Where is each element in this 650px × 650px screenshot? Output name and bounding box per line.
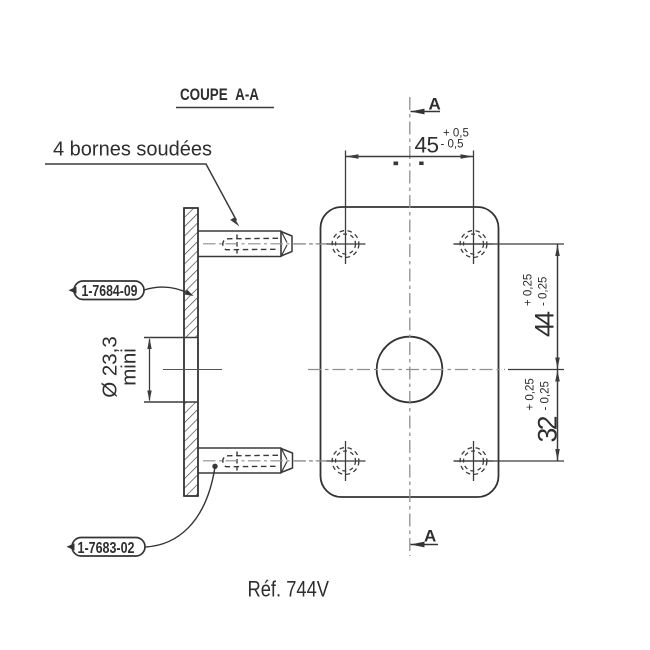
- svg-text:32: 32: [533, 416, 563, 443]
- hole top-left: [326, 231, 366, 258]
- reference bubble 1-7683-02: [67, 538, 146, 558]
- centerline into bottom-left hole from terminal: [294, 460, 327, 462]
- upper terminal centerline: [203, 243, 334, 245]
- reference bubble 1-7684-09: [69, 281, 145, 300]
- svg-text:+ 0,25: + 0,25: [523, 274, 535, 306]
- center hole circle: [377, 337, 443, 403]
- right plate outline: [321, 207, 499, 497]
- svg-text:A: A: [424, 527, 436, 546]
- hole top-right: [454, 231, 494, 258]
- hole bottom-right: [454, 441, 494, 481]
- extension line circle center to dim: [508, 369, 564, 371]
- svg-text:- 0,25: - 0,25: [540, 381, 552, 410]
- dimension 45: [346, 151, 474, 265]
- svg-text:- 0,25: - 0,25: [538, 277, 550, 306]
- bore centerline: [163, 369, 222, 371]
- leader bubble2 to terminal dot: [145, 467, 215, 547]
- svg-text:+ 0,25: + 0,25: [525, 378, 537, 410]
- left plate hatching lower: [185, 403, 198, 496]
- svg-text:COUPE A-A: COUPE A-A: [180, 86, 259, 104]
- upper terminal body: [198, 231, 281, 258]
- vertical centerline A-A: [409, 97, 411, 556]
- dimension 44 text (rotated): [523, 274, 560, 337]
- lower terminal body: [198, 448, 281, 474]
- extension line bottom holes to 32 dim: [454, 460, 565, 462]
- upper terminal tip: [281, 232, 292, 257]
- dimension 32 vertical: [555, 370, 560, 462]
- hole bottom-left: [326, 441, 366, 481]
- svg-text:A: A: [429, 95, 441, 114]
- svg-text:1-7684-09: 1-7684-09: [82, 283, 138, 300]
- dimension 45 text: [415, 128, 469, 158]
- hole edge lines in plate (23,3 bore): [144, 338, 198, 403]
- svg-text:- 0,5: - 0,5: [441, 139, 464, 151]
- horizontal centerline of circle: [308, 369, 505, 371]
- left plate section outline: [183, 208, 199, 496]
- centerline into top-left hole from terminal: [294, 243, 327, 245]
- svg-text:4 bornes soudées: 4 bornes soudées: [53, 139, 212, 161]
- svg-text:44: 44: [530, 311, 560, 337]
- dimension 32 text (rotated): [525, 378, 563, 442]
- lower terminal tip: [281, 449, 293, 473]
- svg-text:45: 45: [415, 133, 440, 158]
- svg-text:mini: mini: [118, 348, 141, 386]
- leader from label to upper terminal: [45, 164, 240, 227]
- left plate hatching upper: [185, 209, 198, 337]
- lower terminal centerline: [203, 460, 334, 462]
- lower terminal hidden bore (dashed): [223, 452, 278, 471]
- leader bubble1 to plate: [144, 287, 194, 296]
- extension line top holes to 44 dim: [454, 243, 565, 245]
- svg-text:Réf. 744V: Réf. 744V: [248, 577, 330, 602]
- title COUPE A-A: [176, 86, 274, 108]
- dimension text O 23,3 mini (rotated): [99, 336, 141, 398]
- svg-text:1-7683-02: 1-7683-02: [78, 540, 135, 557]
- upper terminal hidden bore (dashed): [223, 235, 278, 254]
- section arrow A bottom: [411, 527, 439, 548]
- leader dot on lower terminal: [212, 464, 217, 469]
- section arrow A top: [411, 95, 441, 115]
- two small marks under dimension 45: [394, 162, 399, 166]
- dimension 44 vertical: [555, 244, 560, 370]
- dimension 23,3 vertical line with arrows: [147, 338, 151, 402]
